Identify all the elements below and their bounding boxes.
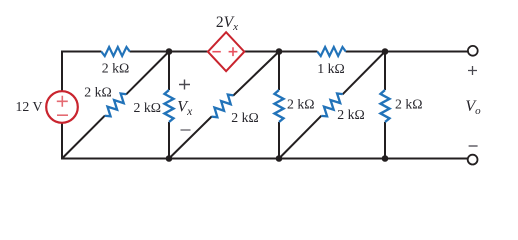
wire node C vertical top xyxy=(384,52,386,91)
wire diagonal 1 upper xyxy=(126,52,169,95)
resistor vertical at node C zigzag xyxy=(381,90,390,122)
resistor R1 2k top-left zigzag xyxy=(101,47,130,56)
node C bottom junction dot xyxy=(382,155,389,162)
svg-text:Vx: Vx xyxy=(177,99,193,119)
wire diagonal 3 lower xyxy=(279,116,321,159)
wire top between R1 and node A xyxy=(130,51,169,53)
label Vx minus mark xyxy=(181,129,191,131)
wire diagonal 3 upper xyxy=(343,52,385,95)
wire left vertical above source xyxy=(61,51,63,92)
resistor vertical at node B zigzag xyxy=(275,90,284,122)
svg-text:2 kΩ: 2 kΩ xyxy=(102,61,130,76)
node C top junction dot xyxy=(382,48,389,55)
svg-text:2 kΩ: 2 kΩ xyxy=(84,85,112,100)
node B top junction dot xyxy=(276,48,283,55)
dependent source minus sign xyxy=(212,51,220,53)
dependent source 2Vx diamond xyxy=(208,32,244,71)
wire node A vertical top xyxy=(168,52,170,91)
label Vo plus mark xyxy=(468,66,477,75)
svg-text:Vo: Vo xyxy=(465,98,481,117)
resistor diagonal 3 zigzag xyxy=(318,91,346,119)
svg-text:2 kΩ: 2 kΩ xyxy=(287,96,315,111)
voltage source V1 12V circle xyxy=(46,91,78,123)
wire node B vertical top xyxy=(278,52,280,91)
wire 1k resistor to node C xyxy=(346,51,385,53)
wire diagonal 2 upper xyxy=(233,52,279,96)
wire diagonal 2 lower xyxy=(169,116,212,158)
wire node C to top terminal xyxy=(385,51,468,53)
node A bottom junction dot xyxy=(166,155,173,162)
resistor diagonal 1 zigzag xyxy=(102,91,130,119)
resistor vertical at node A (Vx) zigzag xyxy=(165,90,174,122)
wire top left horizontal xyxy=(62,51,101,53)
svg-text:2Vx: 2Vx xyxy=(216,14,238,33)
svg-text:1 kΩ: 1 kΩ xyxy=(317,61,345,76)
voltage source V1 plus sign xyxy=(57,96,68,107)
resistor 1k top zigzag xyxy=(317,47,346,56)
label Vx plus mark xyxy=(179,80,190,90)
label Vo minus mark xyxy=(469,145,478,147)
wire node C vertical bottom xyxy=(384,122,386,159)
svg-text:2 kΩ: 2 kΩ xyxy=(395,96,423,111)
wire node A to diamond left xyxy=(169,51,208,53)
wire node B vertical bottom xyxy=(278,122,280,159)
voltage source V1 minus sign xyxy=(57,114,68,116)
svg-text:2 kΩ: 2 kΩ xyxy=(134,100,162,115)
dependent source plus sign xyxy=(229,47,238,56)
svg-text:12 V: 12 V xyxy=(16,99,43,114)
node B bottom junction dot xyxy=(276,155,283,162)
resistor diagonal 2 zigzag xyxy=(208,92,236,120)
wire diamond right to node B xyxy=(244,51,279,53)
output terminal bottom xyxy=(468,155,478,165)
svg-text:2 kΩ: 2 kΩ xyxy=(337,107,365,122)
output terminal top xyxy=(468,46,478,56)
node A top junction dot xyxy=(166,48,173,55)
wire bottom rail xyxy=(61,158,468,160)
wire node A vertical bottom xyxy=(168,122,170,159)
svg-text:2 kΩ: 2 kΩ xyxy=(231,110,259,125)
wire diagonal 1 lower xyxy=(62,116,105,159)
wire left vertical below source xyxy=(61,123,63,159)
wire node B to 1k resistor xyxy=(279,51,317,53)
